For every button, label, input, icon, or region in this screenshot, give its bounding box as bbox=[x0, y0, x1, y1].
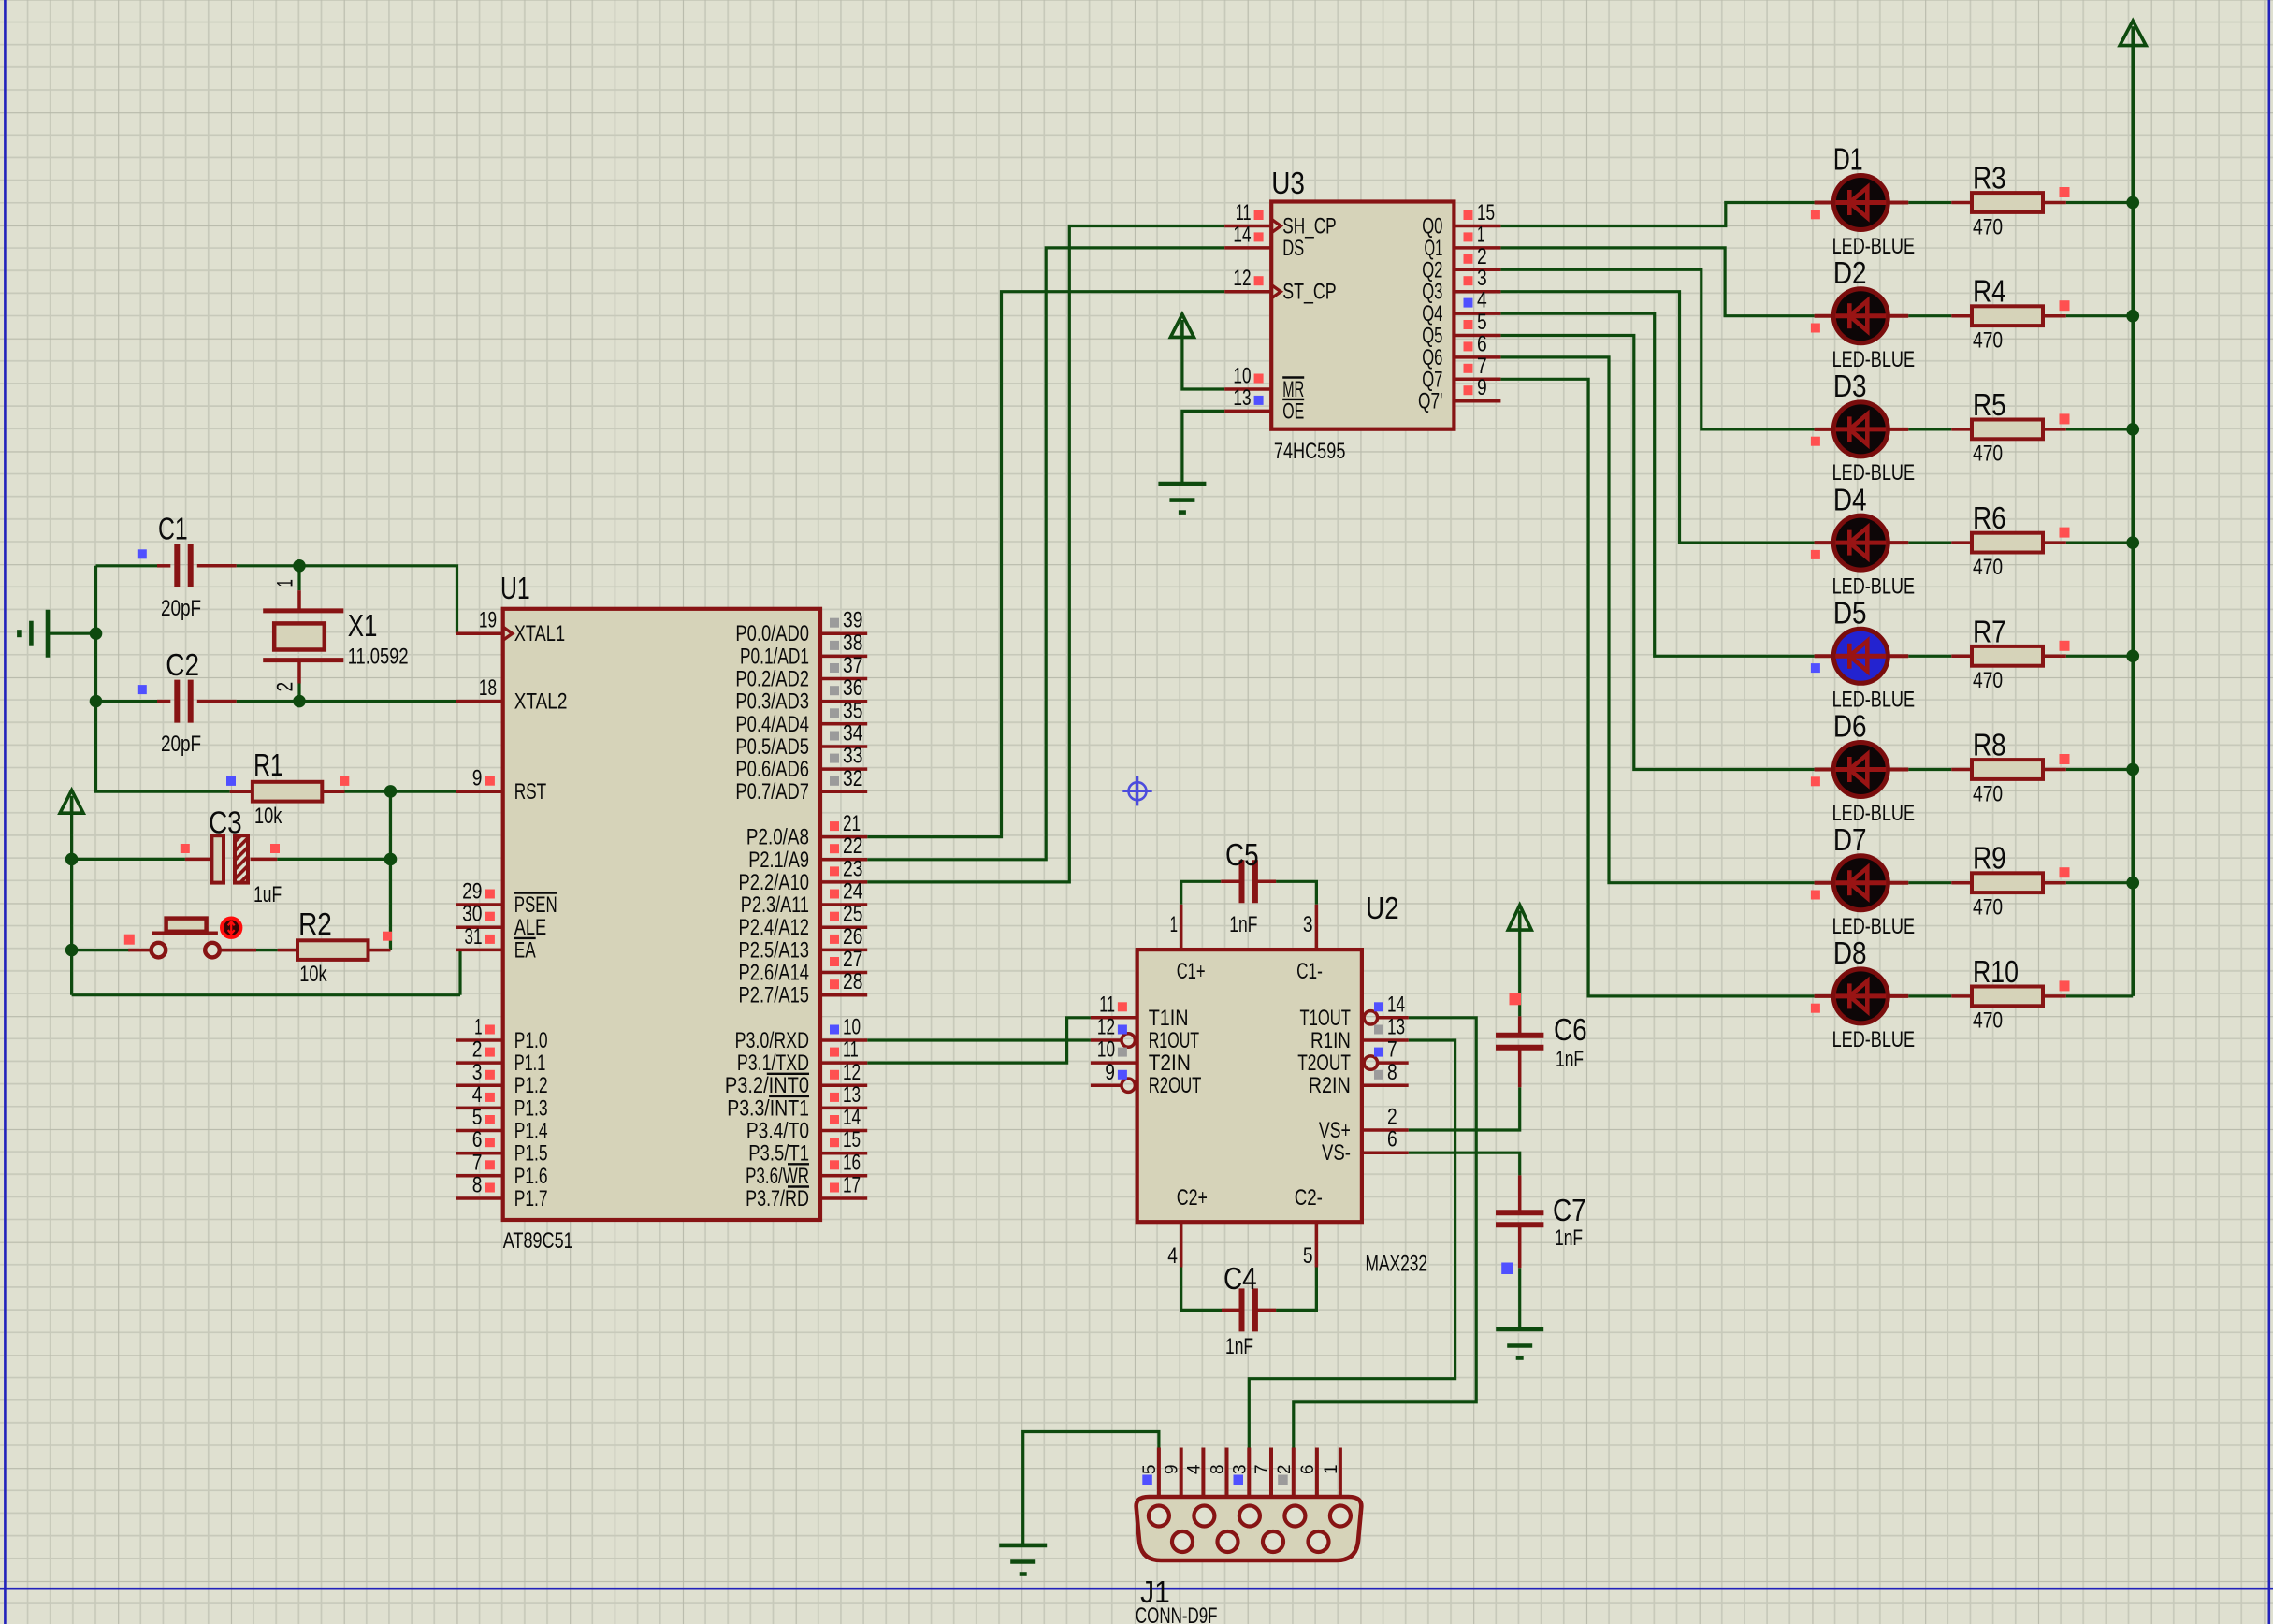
svg-text:4: 4 bbox=[1184, 1464, 1204, 1474]
U1 pin 26 P2.5/A13 bbox=[739, 924, 868, 964]
svg-text:2: 2 bbox=[472, 1037, 483, 1063]
U3 pin 3 Q3 bbox=[1422, 266, 1500, 305]
svg-text:7: 7 bbox=[472, 1150, 483, 1175]
wire ground stub left bbox=[48, 632, 96, 635]
svg-text:X1: X1 bbox=[348, 608, 378, 643]
capacitor C2 bbox=[138, 680, 237, 723]
resistor R5 bbox=[1951, 413, 2069, 439]
svg-text:D8: D8 bbox=[1833, 935, 1867, 970]
svg-text:P0.6/AD6: P0.6/AD6 bbox=[735, 757, 809, 782]
U3 pin 15 Q0 bbox=[1422, 200, 1500, 239]
svg-text:1nF: 1nF bbox=[1555, 1225, 1583, 1251]
svg-text:470: 470 bbox=[1973, 1008, 2003, 1034]
svg-text:P2.2/A10: P2.2/A10 bbox=[739, 870, 810, 895]
wire P2.0 to ST_CP bbox=[867, 292, 1224, 837]
svg-text:36: 36 bbox=[843, 675, 862, 701]
svg-text:PSEN: PSEN bbox=[514, 892, 557, 918]
svg-text:D7: D7 bbox=[1833, 822, 1867, 857]
ground symbol J1 pin5 bbox=[999, 1545, 1047, 1574]
svg-text:P3.3/INT1: P3.3/INT1 bbox=[727, 1095, 809, 1121]
U3 pin 6 Q6 bbox=[1422, 331, 1500, 370]
U1 pin 19 XTAL1 bbox=[456, 608, 566, 647]
wire left vertical C1-C2-RST bbox=[96, 566, 230, 791]
U2 pin 12 R1OUT bbox=[1091, 1015, 1199, 1054]
U3 pin 10 MR bbox=[1224, 364, 1304, 403]
svg-text:AT89C51: AT89C51 bbox=[503, 1228, 573, 1254]
U3 pin 13 OE bbox=[1224, 385, 1304, 425]
svg-text:P1.0: P1.0 bbox=[514, 1028, 548, 1053]
U1 pin 10 P3.0/RXD bbox=[735, 1015, 868, 1054]
svg-text:C3: C3 bbox=[209, 805, 242, 840]
svg-text:D2: D2 bbox=[1833, 255, 1867, 290]
U3 pin 7 Q7 bbox=[1422, 354, 1500, 393]
op-amp U1 AT89C51 microcontroller body bbox=[503, 609, 820, 1220]
svg-text:P2.5/A13: P2.5/A13 bbox=[739, 937, 810, 963]
U1 pin 33 P0.6/AD6 bbox=[735, 744, 867, 783]
svg-text:R6: R6 bbox=[1973, 500, 2006, 535]
U1 pin 7 P1.6 bbox=[456, 1150, 548, 1189]
svg-text:17: 17 bbox=[843, 1173, 861, 1198]
svg-text:7: 7 bbox=[1252, 1464, 1272, 1474]
ground symbol below U3 OE bbox=[1158, 484, 1206, 513]
svg-text:P0.1/AD1: P0.1/AD1 bbox=[740, 644, 809, 669]
svg-text:15: 15 bbox=[843, 1127, 861, 1153]
wire D8 to R10 to rail bbox=[1908, 994, 2133, 997]
power symbol left reset circuit bbox=[60, 790, 83, 814]
resistor R7 bbox=[1951, 641, 2069, 666]
wire P2.2 to SH_CP bbox=[867, 226, 1224, 882]
sheet border line bottom bbox=[0, 1588, 2273, 1590]
U1 pin 1 P1.0 bbox=[456, 1015, 548, 1054]
svg-text:26: 26 bbox=[843, 924, 862, 950]
LED D1 bbox=[1811, 176, 1908, 230]
op-amp U3 74HC595 shift register body bbox=[1271, 202, 1454, 429]
svg-text:P2.7/A15: P2.7/A15 bbox=[739, 983, 810, 1008]
U2 pin 10 T2IN bbox=[1091, 1037, 1191, 1077]
wire U3 power arrow to MR bbox=[1182, 337, 1224, 389]
svg-text:4: 4 bbox=[1167, 1243, 1178, 1269]
svg-text:T1OUT: T1OUT bbox=[1300, 1006, 1352, 1031]
U1 pin 32 P0.7/AD7 bbox=[735, 766, 867, 805]
U1 pin 36 P0.3/AD3 bbox=[735, 675, 867, 715]
wire D7 to R9 to rail bbox=[1908, 881, 2133, 884]
LED D5 bbox=[1811, 629, 1908, 683]
svg-text:13: 13 bbox=[1233, 385, 1251, 411]
svg-text:R3: R3 bbox=[1973, 161, 2006, 196]
resistor R1 bbox=[226, 776, 349, 802]
U1 pin 29 PSEN bbox=[456, 879, 557, 919]
U3 pin 4 Q4 bbox=[1422, 288, 1500, 327]
wire R1 to RST pin bbox=[345, 790, 456, 793]
push button reset bbox=[124, 919, 256, 958]
svg-text:P3.6/WR: P3.6/WR bbox=[746, 1164, 809, 1189]
svg-text:C1-: C1- bbox=[1296, 959, 1323, 984]
U1 pin 34 P0.5/AD5 bbox=[735, 721, 867, 761]
wire Q4 to D5 bbox=[1500, 313, 1814, 656]
svg-text:P1.6: P1.6 bbox=[514, 1164, 548, 1189]
svg-text:P1.2: P1.2 bbox=[514, 1073, 548, 1098]
wire VS+ to C6 bbox=[1409, 1087, 1520, 1130]
resistor R9 bbox=[1951, 867, 2069, 892]
crystal X1 bbox=[263, 566, 343, 702]
power symbol U3 MR bbox=[1170, 314, 1194, 337]
wire Q0 to D1 bbox=[1500, 203, 1814, 226]
svg-text:C7: C7 bbox=[1553, 1193, 1586, 1227]
svg-text:10: 10 bbox=[1097, 1037, 1115, 1063]
svg-text:32: 32 bbox=[843, 766, 862, 791]
wire C2 row to XTAL2 bbox=[96, 700, 456, 703]
U1 pin 39 P0.0/AD0 bbox=[735, 608, 867, 647]
U2 pin 11 T1IN bbox=[1091, 992, 1189, 1031]
svg-text:5: 5 bbox=[1303, 1243, 1313, 1269]
svg-text:11: 11 bbox=[843, 1037, 859, 1063]
svg-text:2: 2 bbox=[1387, 1105, 1397, 1130]
svg-text:P2.6/A14: P2.6/A14 bbox=[739, 961, 810, 986]
connector J1 CONN-D9F body bbox=[1136, 1497, 1362, 1560]
wire C4 loop bbox=[1181, 1268, 1317, 1311]
wire button row bbox=[72, 949, 278, 951]
J1 pin 3 state square bbox=[1234, 1475, 1244, 1486]
U1 pin 35 P0.4/AD4 bbox=[735, 698, 867, 737]
svg-text:7: 7 bbox=[1387, 1037, 1397, 1063]
U1 pin 31 EA bbox=[456, 924, 536, 964]
wire C6 column from power arrow bbox=[1518, 930, 1521, 1016]
svg-text:U1: U1 bbox=[500, 571, 530, 605]
svg-text:Q7': Q7' bbox=[1418, 389, 1442, 414]
svg-text:35: 35 bbox=[843, 698, 862, 723]
U2 pin 3 C1- bbox=[1296, 905, 1323, 984]
wire OE to ground bbox=[1182, 411, 1224, 484]
wire T1OUT to J1 pin 2 bbox=[1294, 1018, 1476, 1448]
svg-text:T1IN: T1IN bbox=[1149, 1006, 1189, 1031]
resistor R3 bbox=[1951, 187, 2069, 212]
svg-text:U2: U2 bbox=[1366, 891, 1399, 925]
svg-text:P1.3: P1.3 bbox=[514, 1095, 548, 1121]
wire power rail right bbox=[2131, 46, 2135, 996]
svg-text:3: 3 bbox=[1230, 1464, 1250, 1474]
svg-text:3: 3 bbox=[472, 1060, 483, 1085]
svg-text:9: 9 bbox=[472, 766, 483, 791]
svg-text:R5: R5 bbox=[1973, 387, 2006, 422]
svg-text:33: 33 bbox=[843, 744, 862, 769]
U3 pin 2 Q2 bbox=[1422, 244, 1500, 283]
svg-text:38: 38 bbox=[843, 631, 862, 656]
svg-text:13: 13 bbox=[843, 1082, 861, 1108]
svg-text:P0.0/AD0: P0.0/AD0 bbox=[735, 621, 809, 646]
svg-text:C1: C1 bbox=[158, 512, 188, 546]
U1 pin 30 ALE bbox=[456, 902, 547, 941]
svg-text:21: 21 bbox=[843, 811, 861, 836]
svg-text:5: 5 bbox=[1140, 1464, 1160, 1474]
svg-text:C4: C4 bbox=[1223, 1261, 1257, 1296]
svg-text:P2.1/A9: P2.1/A9 bbox=[748, 848, 809, 873]
svg-text:20pF: 20pF bbox=[161, 596, 201, 621]
U2 pin 9 R2OUT bbox=[1091, 1060, 1202, 1098]
svg-text:1nF: 1nF bbox=[1229, 912, 1257, 937]
U3 pin 1 Q1 bbox=[1425, 222, 1501, 261]
svg-text:31: 31 bbox=[464, 924, 482, 950]
U2 pin 2 VS+ bbox=[1319, 1105, 1409, 1144]
J1 pin 6 bbox=[1298, 1448, 1318, 1498]
wire VS- to C7 bbox=[1409, 1153, 1520, 1175]
U1 pin 28 P2.7/A15 bbox=[739, 969, 868, 1008]
wire vertical power to button row and EA loop bbox=[72, 859, 460, 994]
U1 pin 12 P3.2/INT0 bbox=[725, 1060, 867, 1098]
LED D3 bbox=[1811, 402, 1908, 457]
svg-text:R10: R10 bbox=[1973, 954, 2019, 989]
svg-text:P1.4: P1.4 bbox=[514, 1119, 548, 1144]
svg-text:C6: C6 bbox=[1554, 1012, 1587, 1047]
svg-text:28: 28 bbox=[843, 969, 862, 994]
U1 pin 9 RST bbox=[456, 766, 547, 805]
svg-text:XTAL2: XTAL2 bbox=[514, 689, 568, 715]
svg-text:LED-BLUE: LED-BLUE bbox=[1832, 1027, 1915, 1052]
svg-text:6: 6 bbox=[1387, 1127, 1397, 1153]
U1 pin 27 P2.6/A14 bbox=[739, 947, 868, 986]
svg-text:11.0592: 11.0592 bbox=[348, 645, 409, 670]
svg-text:6: 6 bbox=[1298, 1464, 1318, 1474]
svg-text:12: 12 bbox=[1097, 1015, 1115, 1040]
svg-text:10: 10 bbox=[843, 1015, 861, 1040]
svg-text:2: 2 bbox=[1275, 1464, 1295, 1474]
svg-text:R4: R4 bbox=[1973, 274, 2006, 309]
svg-text:CONN-D9F: CONN-D9F bbox=[1136, 1603, 1218, 1624]
capacitor C3 electrolytic bbox=[181, 835, 280, 882]
wire P3.0 RXD to R1OUT bbox=[867, 1038, 1091, 1041]
svg-text:5: 5 bbox=[472, 1105, 483, 1130]
U1 pin 17 P3.7/RD bbox=[746, 1173, 867, 1212]
svg-text:P0.3/AD3: P0.3/AD3 bbox=[735, 689, 809, 715]
svg-text:29: 29 bbox=[462, 879, 482, 905]
svg-text:14: 14 bbox=[1387, 992, 1405, 1017]
svg-text:VS+: VS+ bbox=[1319, 1118, 1351, 1143]
capacitor C6 bbox=[1496, 993, 1543, 1087]
svg-text:P0.7/AD7: P0.7/AD7 bbox=[735, 779, 809, 805]
LED D6 bbox=[1811, 743, 1908, 797]
wire D2 to R4 to rail bbox=[1908, 314, 2133, 317]
svg-text:470: 470 bbox=[1973, 668, 2003, 693]
wire Q5 to D6 bbox=[1500, 336, 1814, 770]
U3 pin 5 Q5 bbox=[1422, 310, 1500, 349]
svg-text:P3.2/INT0: P3.2/INT0 bbox=[725, 1073, 809, 1098]
J1 pin 4 bbox=[1184, 1448, 1204, 1498]
resistor R10 bbox=[1951, 980, 2069, 1006]
svg-text:C5: C5 bbox=[1225, 837, 1259, 872]
wire vertical R1-C3-R2 node bbox=[389, 791, 392, 950]
svg-text:RST: RST bbox=[514, 779, 547, 805]
svg-text:R7: R7 bbox=[1973, 614, 2006, 648]
svg-text:D5: D5 bbox=[1833, 596, 1867, 631]
svg-text:470: 470 bbox=[1973, 781, 2003, 806]
J1 pin 1 bbox=[1322, 1448, 1341, 1498]
svg-text:8: 8 bbox=[1209, 1464, 1228, 1474]
svg-text:9: 9 bbox=[1477, 375, 1487, 400]
svg-text:ALE: ALE bbox=[514, 915, 547, 940]
svg-text:C2-: C2- bbox=[1295, 1185, 1323, 1211]
wire J1 pin 5 to ground bbox=[1023, 1432, 1159, 1545]
svg-text:DS: DS bbox=[1282, 236, 1304, 261]
LED D2 bbox=[1811, 289, 1908, 343]
U1 pin 22 P2.1/A9 bbox=[748, 834, 867, 873]
svg-text:16: 16 bbox=[843, 1150, 861, 1175]
op-amp U2 MAX232 body bbox=[1137, 950, 1362, 1222]
svg-text:4: 4 bbox=[472, 1082, 483, 1108]
svg-text:P1.1: P1.1 bbox=[514, 1051, 546, 1076]
wire D5 to R7 to rail bbox=[1908, 655, 2133, 658]
svg-text:R1OUT: R1OUT bbox=[1149, 1028, 1200, 1053]
svg-text:37: 37 bbox=[843, 653, 862, 678]
sheet border line right bbox=[2268, 0, 2271, 1624]
svg-text:14: 14 bbox=[1233, 222, 1251, 247]
wire Q1 to D2 bbox=[1500, 248, 1814, 316]
svg-text:U3: U3 bbox=[1271, 166, 1305, 200]
svg-text:P2.3/A11: P2.3/A11 bbox=[741, 892, 809, 918]
J1 pin 7 bbox=[1252, 1448, 1272, 1498]
U3 pin 9 Q7' bbox=[1418, 375, 1500, 414]
U1 pin 21 P2.0/A8 bbox=[746, 811, 867, 850]
J1 pin 5 state square bbox=[1142, 1475, 1152, 1486]
U2 pin 1 C1+ bbox=[1170, 905, 1206, 984]
svg-text:13: 13 bbox=[1387, 1015, 1405, 1040]
svg-text:D4: D4 bbox=[1833, 482, 1867, 516]
wire C1 row to XTAL1 bbox=[96, 566, 457, 633]
J1 pin 2 bbox=[1275, 1448, 1295, 1498]
U2 pin 6 VS- bbox=[1322, 1127, 1409, 1167]
svg-text:P1.5: P1.5 bbox=[514, 1141, 548, 1167]
U1 pin 25 P2.4/A12 bbox=[739, 902, 868, 941]
svg-text:R1IN: R1IN bbox=[1310, 1028, 1351, 1053]
svg-text:6: 6 bbox=[472, 1127, 483, 1153]
svg-text:470: 470 bbox=[1973, 895, 2003, 921]
U1 pin 18 XTAL2 bbox=[456, 675, 568, 715]
svg-text:1nF: 1nF bbox=[1556, 1047, 1584, 1072]
U3 pin 12 ST_CP bbox=[1224, 266, 1337, 305]
J1 pin 2 state square bbox=[1278, 1475, 1288, 1486]
svg-text:74HC595: 74HC595 bbox=[1274, 439, 1346, 464]
svg-text:P3.1/TXD: P3.1/TXD bbox=[737, 1051, 809, 1076]
J1 pin 8 bbox=[1209, 1448, 1228, 1498]
svg-text:P0.5/AD5: P0.5/AD5 bbox=[735, 734, 809, 760]
svg-text:P1.7: P1.7 bbox=[514, 1186, 548, 1211]
U1 pin 6 P1.5 bbox=[456, 1127, 548, 1167]
capacitor C1 bbox=[138, 544, 237, 587]
svg-text:R1: R1 bbox=[253, 747, 283, 782]
U1 pin 11 P3.1/TXD bbox=[737, 1037, 867, 1077]
svg-text:C1+: C1+ bbox=[1177, 959, 1206, 984]
svg-text:12: 12 bbox=[1233, 266, 1251, 291]
wire D4 to R6 to rail bbox=[1908, 541, 2133, 544]
svg-text:R8: R8 bbox=[1973, 728, 2006, 762]
svg-text:25: 25 bbox=[843, 902, 862, 927]
svg-text:D3: D3 bbox=[1833, 369, 1867, 403]
wire R1IN to J1 pin 3 bbox=[1249, 1040, 1455, 1448]
capacitor C7 bbox=[1496, 1175, 1543, 1274]
wire C7 to ground bbox=[1518, 1268, 1521, 1328]
J1 pin 5 bbox=[1140, 1448, 1160, 1498]
svg-text:1uF: 1uF bbox=[253, 882, 282, 907]
svg-text:MAX232: MAX232 bbox=[1366, 1252, 1428, 1277]
svg-text:34: 34 bbox=[843, 721, 862, 747]
wire P2.1 to DS bbox=[867, 248, 1224, 860]
wire Q7 to D8 bbox=[1500, 379, 1814, 996]
svg-text:T2OUT: T2OUT bbox=[1297, 1051, 1351, 1076]
wire P3.1 TXD to T1IN bbox=[867, 1018, 1091, 1063]
resistor R6 bbox=[1951, 528, 2069, 553]
svg-text:T2IN: T2IN bbox=[1149, 1051, 1191, 1076]
U2 pin 4 C2+ bbox=[1167, 1185, 1208, 1269]
resistor R4 bbox=[1951, 300, 2069, 326]
svg-text:470: 470 bbox=[1973, 442, 2003, 467]
U1 pin 23 P2.2/A10 bbox=[739, 856, 868, 895]
svg-text:470: 470 bbox=[1973, 555, 2003, 580]
svg-text:OE: OE bbox=[1282, 399, 1304, 424]
svg-text:P3.5/T1: P3.5/T1 bbox=[748, 1141, 809, 1167]
U3 pin 14 DS bbox=[1224, 222, 1304, 261]
resistor R2 bbox=[278, 932, 392, 960]
LED D4 bbox=[1811, 515, 1908, 570]
svg-text:23: 23 bbox=[843, 856, 862, 881]
svg-text:470: 470 bbox=[1973, 328, 2003, 354]
svg-text:24: 24 bbox=[843, 879, 862, 905]
U2 pin 13 R1IN bbox=[1310, 1015, 1409, 1054]
svg-text:9: 9 bbox=[1105, 1060, 1115, 1085]
wire D6 to R8 to rail bbox=[1908, 768, 2133, 771]
wire Q3 to D4 bbox=[1500, 292, 1814, 543]
svg-text:P3.4/T0: P3.4/T0 bbox=[746, 1119, 809, 1144]
J1 pin 9 bbox=[1163, 1448, 1182, 1498]
svg-text:1: 1 bbox=[474, 1015, 482, 1040]
svg-text:18: 18 bbox=[479, 675, 497, 701]
U3 pin 11 SH_CP bbox=[1224, 200, 1337, 239]
power symbol top right rail bbox=[2120, 21, 2146, 45]
svg-text:1nF: 1nF bbox=[1225, 1334, 1253, 1359]
svg-text:1: 1 bbox=[1322, 1464, 1341, 1474]
J1 pin 3 bbox=[1230, 1448, 1250, 1498]
svg-text:1: 1 bbox=[1170, 912, 1178, 937]
U2 pin 8 R2IN bbox=[1309, 1060, 1409, 1098]
svg-text:R2: R2 bbox=[298, 906, 332, 941]
LED D8 bbox=[1811, 969, 1908, 1023]
resistor R8 bbox=[1951, 754, 2069, 779]
U1 pin 13 P3.3/INT1 bbox=[727, 1082, 867, 1122]
U2 pin 7 T2OUT bbox=[1297, 1037, 1409, 1077]
power symbol C6 column bbox=[1508, 906, 1531, 931]
wire power to C3 row bbox=[72, 813, 185, 859]
ground symbol below C7 bbox=[1496, 1329, 1543, 1358]
svg-text:8: 8 bbox=[472, 1173, 483, 1198]
wire C3 right to vertical bbox=[277, 858, 390, 861]
U1 pin 8 P1.7 bbox=[456, 1173, 548, 1212]
svg-text:27: 27 bbox=[843, 947, 862, 972]
svg-text:ST_CP: ST_CP bbox=[1282, 280, 1337, 305]
svg-text:11: 11 bbox=[1099, 992, 1115, 1017]
sheet border line left bbox=[4, 0, 7, 1624]
U1 pin 4 P1.3 bbox=[456, 1082, 548, 1122]
svg-text:22: 22 bbox=[843, 834, 862, 859]
svg-text:470: 470 bbox=[1973, 214, 2003, 239]
svg-text:XTAL1: XTAL1 bbox=[514, 621, 565, 646]
U1 pin 5 P1.4 bbox=[456, 1105, 548, 1144]
U1 pin 15 P3.5/T1 bbox=[748, 1127, 867, 1167]
svg-text:R2IN: R2IN bbox=[1309, 1073, 1351, 1098]
capacitor C5 bbox=[1221, 860, 1276, 903]
svg-text:R9: R9 bbox=[1973, 841, 2006, 876]
svg-text:D1: D1 bbox=[1833, 142, 1863, 177]
svg-text:C2+: C2+ bbox=[1177, 1185, 1208, 1211]
U2 pin 5 C2- bbox=[1295, 1185, 1323, 1269]
U1 pin 2 P1.1 bbox=[456, 1037, 546, 1077]
U1 pin 16 P3.6/WR bbox=[746, 1150, 867, 1189]
